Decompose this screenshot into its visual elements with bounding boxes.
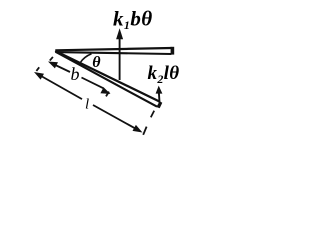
svg-text:θ: θ bbox=[92, 54, 101, 71]
svg-text:k2lθ: k2lθ bbox=[148, 63, 180, 86]
svg-text:b: b bbox=[71, 64, 80, 84]
svg-text:l: l bbox=[85, 97, 89, 113]
svg-text:k1bθ: k1bθ bbox=[113, 7, 153, 33]
